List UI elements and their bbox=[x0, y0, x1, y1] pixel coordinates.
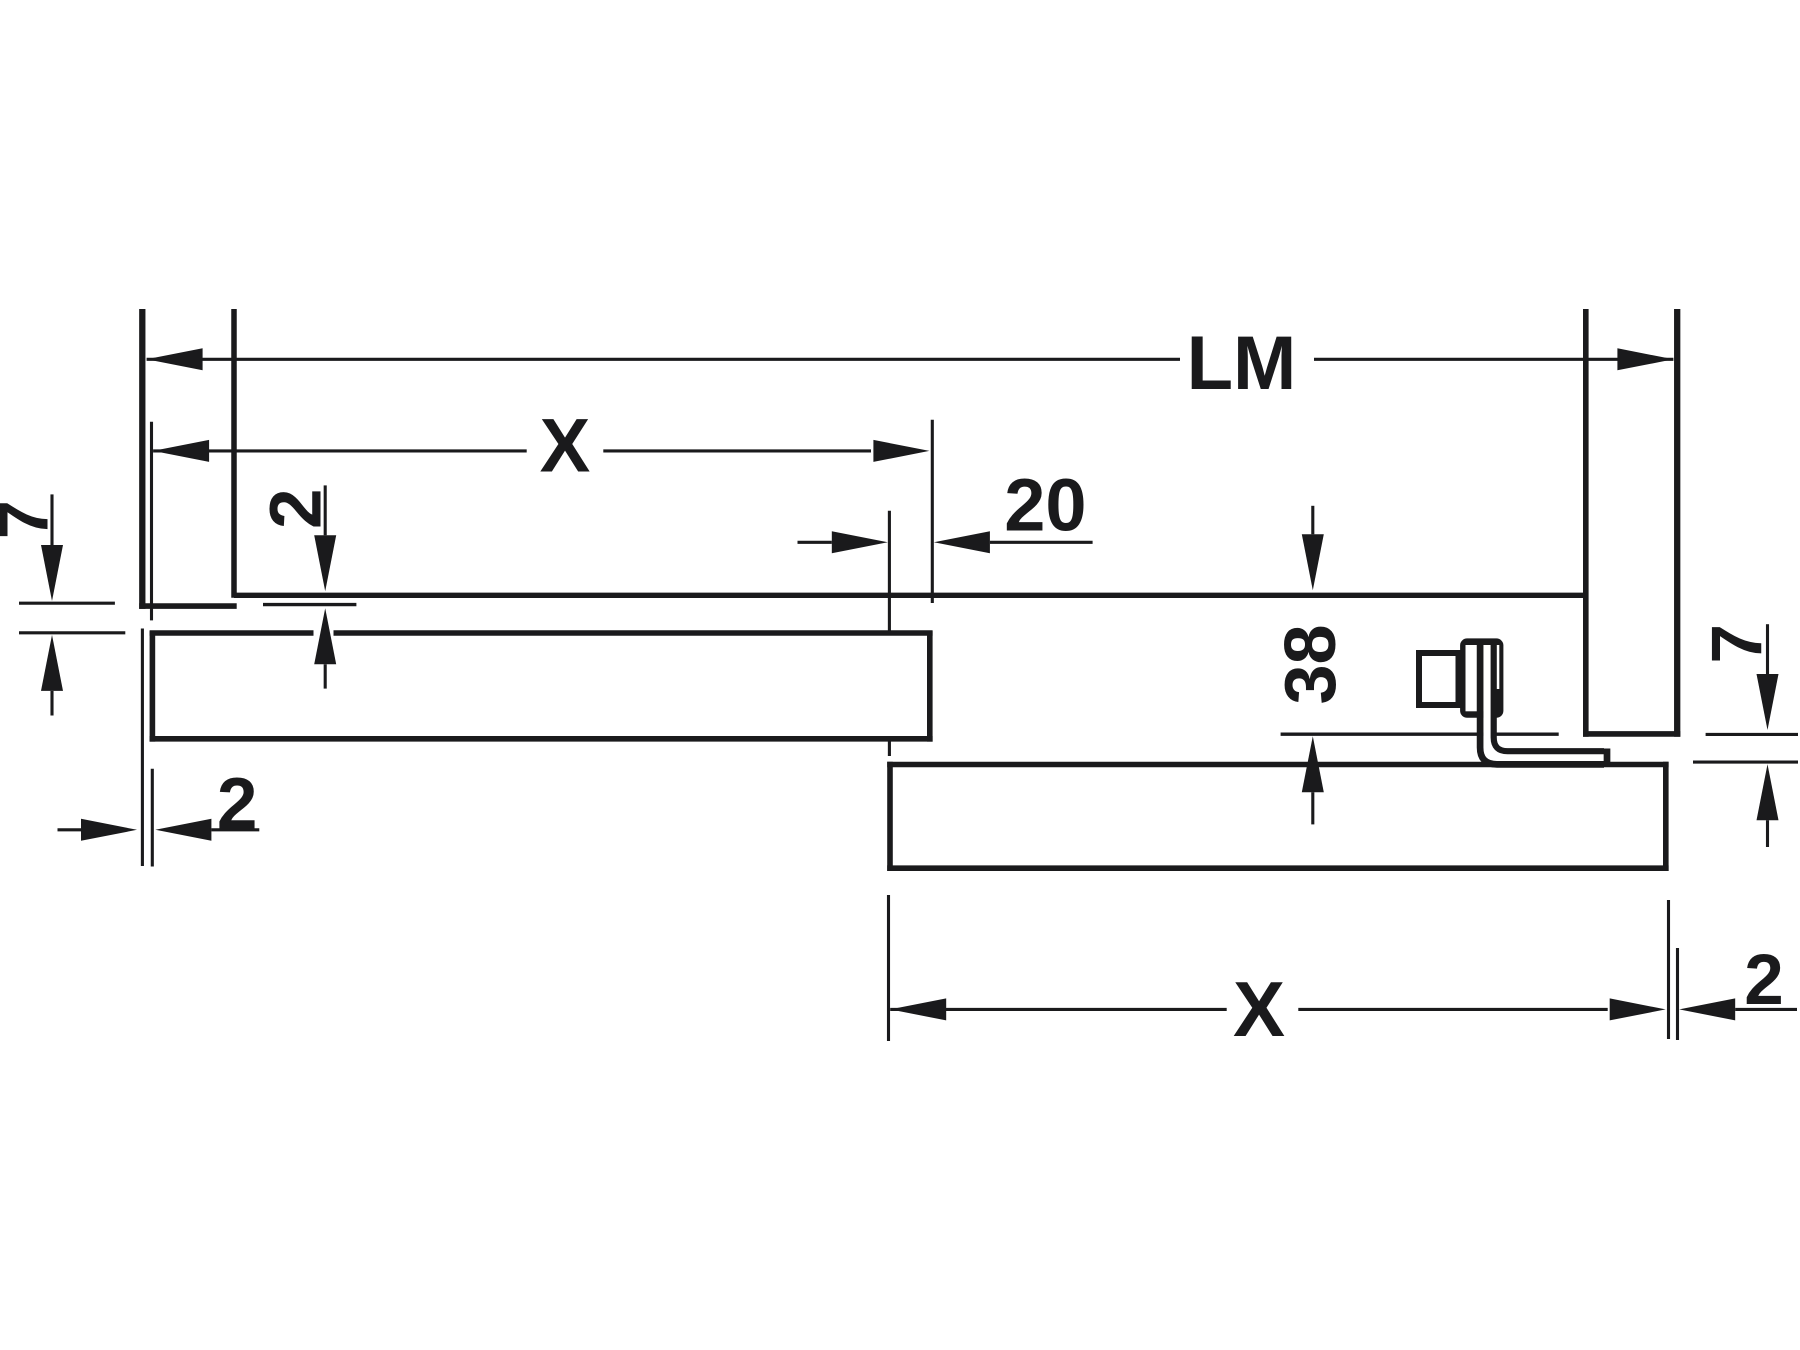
dimension LM arrowheads bbox=[147, 348, 203, 370]
svg-text:2: 2 bbox=[255, 488, 336, 529]
svg-text:38: 38 bbox=[1271, 624, 1351, 704]
svg-text:X: X bbox=[540, 404, 591, 489]
left wall panel right line bbox=[231, 309, 237, 598]
witness 7-left lower bbox=[19, 631, 125, 634]
extension line E3 (door-left lower) bbox=[151, 769, 154, 867]
dimension 38 down arrow bbox=[1311, 506, 1314, 535]
dimension 20 left arrow bbox=[798, 541, 832, 544]
svg-text:7: 7 bbox=[1698, 624, 1777, 664]
dimension 7 left down arrow bbox=[50, 494, 53, 545]
dimension 7 left up arrow bbox=[50, 691, 53, 716]
suspension bracket: white channel of strap bbox=[1487, 645, 1600, 758]
suspension bracket: slit merge block bbox=[1495, 689, 1501, 712]
witness 7-right lower bbox=[1693, 761, 1798, 764]
svg-text:20: 20 bbox=[1004, 464, 1086, 547]
svg-text:7: 7 bbox=[0, 500, 62, 539]
dimension 2 bottom-right arrow bbox=[1735, 1008, 1797, 1011]
dimension X bottom arrowheads bbox=[890, 998, 946, 1020]
left wall panel left line bbox=[139, 309, 145, 609]
svg-text:X: X bbox=[1233, 965, 1285, 1053]
dimension 2 bottom-left arrows bbox=[58, 828, 82, 831]
suspension bracket: strap end cap bbox=[1604, 749, 1611, 765]
top running rail line bbox=[234, 593, 1583, 598]
dimension X bottom line bbox=[890, 1008, 1607, 1011]
dimension X top arrowheads bbox=[153, 440, 209, 462]
witness tick for top 2 dim bbox=[263, 603, 356, 606]
witness 7-right upper bbox=[1706, 733, 1798, 736]
right door panel bbox=[887, 762, 1668, 871]
witness 7-left upper bbox=[19, 602, 115, 605]
witness 38 bbox=[1281, 733, 1559, 736]
dimension 38 up arrow bbox=[1311, 792, 1314, 824]
svg-text:LM: LM bbox=[1187, 321, 1297, 406]
suspension bracket: strap outer line bbox=[1480, 645, 1604, 764]
dimension LM line bbox=[147, 358, 1674, 361]
suspension bracket: adjustment nut bbox=[1419, 653, 1459, 705]
dimension 2 top down arrow bbox=[324, 485, 327, 535]
left door panel bbox=[150, 631, 933, 742]
right wall panel left line bbox=[1583, 309, 1589, 737]
extension line E4 (left-door right edge) bbox=[931, 420, 934, 603]
right wall panel right line bbox=[1674, 309, 1680, 737]
dimension X top line bbox=[153, 449, 871, 452]
extension line E6 (bottom X left) bbox=[887, 895, 890, 1041]
extension line E1 (door-left upper, x dim) bbox=[150, 422, 153, 621]
extension line E2 (wall-left lower) bbox=[141, 629, 144, 867]
extension line E8 (wall-right bottom) bbox=[1676, 948, 1679, 1040]
dimension 20 right arrow bbox=[990, 541, 1093, 544]
suspension bracket: strap inner line bbox=[1494, 645, 1604, 751]
left wall bottom cap bbox=[139, 603, 237, 609]
svg-text:2: 2 bbox=[217, 764, 258, 845]
extension line E5 (right-door left edge) bbox=[888, 511, 891, 756]
extension line E7 (right-door right edge bottom) bbox=[1667, 900, 1670, 1039]
dimension 2 top up arrow bbox=[324, 664, 327, 688]
dimension 7 right down arrow bbox=[1766, 624, 1769, 674]
right wall bottom cap bbox=[1583, 731, 1680, 737]
suspension bracket: hanger plate bbox=[1460, 638, 1503, 717]
dimension 7 right up arrow bbox=[1766, 820, 1769, 847]
svg-text:2: 2 bbox=[1744, 941, 1784, 1020]
